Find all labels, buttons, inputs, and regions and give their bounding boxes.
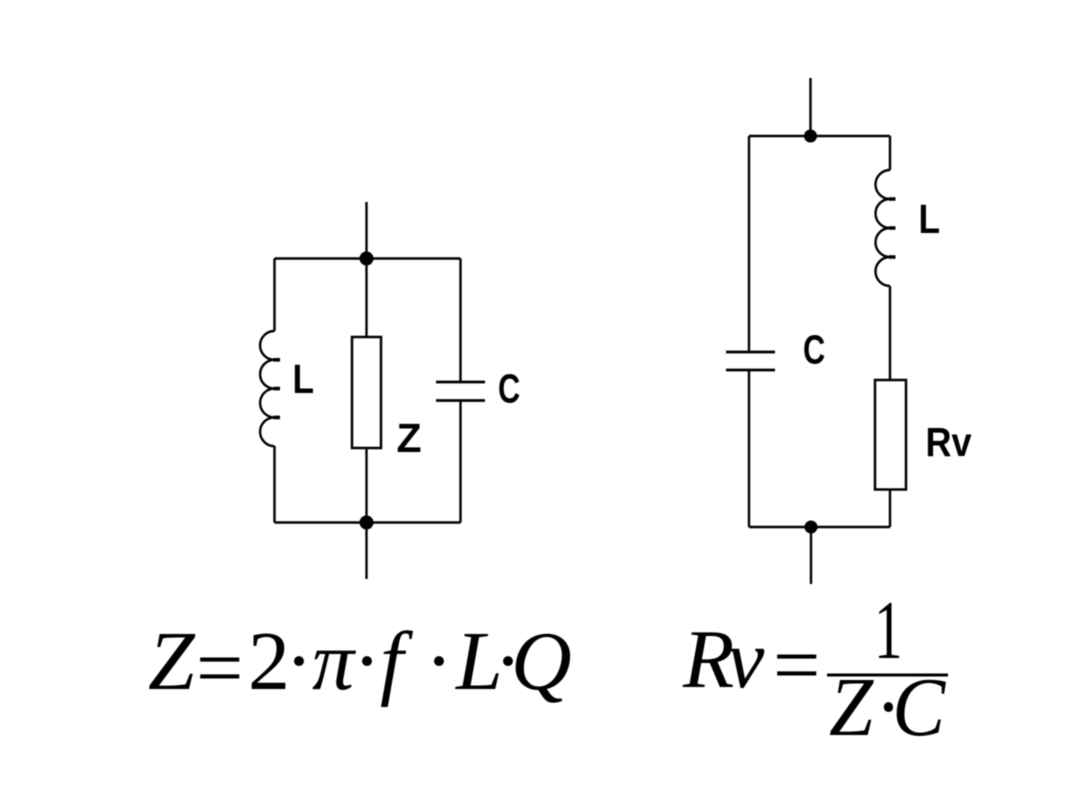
wire: left circuit top horizontal bbox=[275, 257, 461, 259]
inductor L (left circuit) bbox=[260, 331, 274, 446]
wire: right branch above capacitor C bbox=[459, 259, 461, 383]
capacitor C (right circuit) bottom plate bbox=[726, 369, 775, 372]
svg-text:2: 2 bbox=[248, 615, 290, 708]
svg-text:·: · bbox=[425, 615, 453, 708]
node: right circuit bottom junction dot bbox=[805, 521, 818, 534]
wire: right branch between L and Rv bbox=[889, 286, 891, 380]
capacitor C (right circuit) top plate bbox=[726, 351, 775, 354]
svg-text:L: L bbox=[293, 357, 315, 403]
svg-text:=: = bbox=[196, 622, 243, 715]
svg-text:π: π bbox=[312, 615, 357, 708]
wire: right circuit left branch above capacitor C bbox=[748, 136, 750, 352]
svg-text:=: = bbox=[773, 619, 820, 712]
wire: left branch above inductor L bbox=[273, 259, 275, 332]
svg-text:C: C bbox=[892, 660, 946, 754]
svg-text:Q: Q bbox=[511, 615, 572, 708]
svg-text:C: C bbox=[803, 326, 825, 372]
svg-text:v: v bbox=[727, 613, 765, 706]
formula Z = 2*pi*f*L*Q bbox=[148, 615, 572, 715]
svg-text:·: · bbox=[353, 615, 381, 708]
wire: right circuit top horizontal bbox=[749, 135, 890, 137]
wire: left circuit top lead bbox=[365, 202, 367, 259]
formula denominator Z dot C bbox=[829, 660, 947, 754]
fraction bar bbox=[827, 674, 948, 677]
capacitor C (left circuit) bottom plate bbox=[436, 399, 485, 402]
svg-text:Z: Z bbox=[148, 615, 196, 708]
wire: right circuit top lead bbox=[809, 78, 811, 136]
wire: right circuit left branch below capacitor C bbox=[748, 370, 750, 527]
resistor Z (rectangle) bbox=[352, 337, 381, 448]
wire: left circuit bottom horizontal bbox=[275, 521, 461, 523]
node: left circuit bottom junction dot bbox=[360, 516, 374, 530]
inductor L (right circuit) junction ticks bbox=[889, 199, 896, 257]
svg-text:Rv: Rv bbox=[926, 420, 973, 466]
wire: left branch below inductor L bbox=[273, 446, 275, 523]
wire: right branch below capacitor C bbox=[459, 401, 461, 523]
svg-text:Z: Z bbox=[829, 660, 875, 754]
wire: right branch below Rv bbox=[889, 490, 891, 528]
wire: middle branch above resistor Z bbox=[365, 259, 367, 338]
svg-text:C: C bbox=[498, 365, 520, 411]
capacitor C (left circuit) top plate bbox=[436, 381, 485, 384]
node: right circuit top junction dot bbox=[804, 130, 817, 143]
wire: left circuit bottom lead bbox=[365, 523, 367, 580]
inductor L (left circuit) junction ticks bbox=[274, 360, 281, 418]
wire: right branch above inductor L bbox=[889, 136, 891, 170]
wire: middle branch below resistor Z bbox=[365, 448, 367, 523]
formula Rv = 1/(Z*C) bbox=[682, 583, 948, 753]
svg-text:f: f bbox=[380, 615, 414, 708]
svg-text:L: L bbox=[919, 197, 941, 243]
wire: right circuit bottom lead bbox=[810, 527, 812, 584]
resistor Rv (rectangle) bbox=[875, 380, 906, 490]
node: left circuit top junction dot bbox=[360, 252, 374, 266]
inductor L (right circuit) bbox=[876, 170, 891, 286]
svg-text:Z: Z bbox=[397, 415, 422, 461]
wire: right circuit bottom horizontal bbox=[749, 526, 890, 528]
svg-text:·: · bbox=[285, 615, 313, 708]
